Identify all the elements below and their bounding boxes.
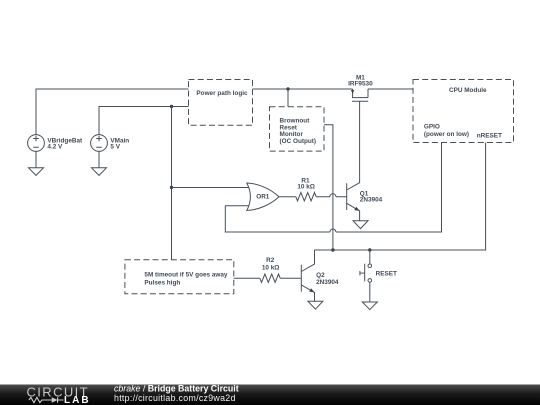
- transistor M1 IRF9530 (P-MOSFET): [351, 89, 368, 101]
- svg-text:2N3904: 2N3904: [360, 196, 383, 203]
- label R1 10 kOhm: [297, 177, 315, 190]
- transistor Q1 2N3904 (NPN): [347, 101, 360, 220]
- wire to OR1 top input: [172, 187, 252, 189]
- node junction VMain rail: [170, 105, 173, 108]
- wire hop arc on feedback line: [330, 229, 336, 232]
- switch RESET (pushbutton): [360, 250, 372, 302]
- label Q1 2N3904: [360, 190, 383, 203]
- svg-text:nRESET: nRESET: [477, 133, 502, 140]
- svg-text:R2: R2: [266, 257, 275, 264]
- svg-text:Q2: Q2: [316, 272, 325, 279]
- ground (Q1 emitter): [353, 221, 368, 229]
- label Brownout Reset Monitor (OC Output): [280, 117, 317, 145]
- wire GPIO feedback to OR1 lower input (with hop over brownout net): [225, 143, 441, 233]
- label VMain 5 V: [110, 137, 129, 150]
- svg-text:5M timeout if 5V goes away: 5M timeout if 5V goes away: [144, 272, 228, 279]
- resistor R2: [260, 274, 280, 282]
- svg-text:IRF9530: IRF9530: [348, 81, 373, 88]
- ground (Q2 emitter): [308, 301, 323, 309]
- svg-text:http://circuitlab.com/cz9wa2d: http://circuitlab.com/cz9wa2d: [114, 393, 236, 403]
- block Brownout Reset Monitor (dashed): [270, 107, 325, 151]
- logo resistor + diode: [29, 397, 64, 402]
- voltage source VMain: [91, 135, 108, 152]
- label 5M timeout if 5V goes away / Pulses high: [144, 272, 228, 287]
- svg-text:2N3904: 2N3904: [316, 279, 339, 286]
- svg-text:10 kΩ: 10 kΩ: [262, 264, 280, 271]
- block CPU Module (dashed): [413, 80, 514, 143]
- svg-text:RESET: RESET: [376, 270, 397, 277]
- wire OR1 output to R1: [279, 196, 296, 198]
- label Q2 2N3904: [316, 272, 339, 286]
- node junction brownout branch: [286, 87, 289, 90]
- svg-text:Pulses high: Pulses high: [144, 280, 180, 287]
- svg-text:Power path logic: Power path logic: [196, 90, 248, 97]
- svg-text:LAB: LAB: [64, 395, 91, 405]
- node junction OR1 top input branch: [170, 186, 173, 189]
- wire M1 drain to CPU Module: [368, 88, 413, 90]
- gate OR1: [247, 183, 279, 210]
- wire Brownout output down to reset net: [324, 125, 333, 250]
- svg-text:10 kΩ: 10 kΩ: [297, 183, 315, 190]
- resistor R1: [296, 193, 316, 201]
- svg-text:(power on low): (power on low): [424, 131, 469, 138]
- transistor Q2 2N3904 (NPN): [301, 250, 314, 301]
- wire down to Brownout box: [287, 89, 289, 107]
- wire hop arc on R1 wire: [330, 194, 336, 197]
- wire VBridgeBat to Power path logic: [36, 89, 189, 135]
- svg-text:Brownout: Brownout: [280, 117, 311, 124]
- ground (VBridgeBat): [29, 168, 44, 176]
- wire VMain to Power path logic: [99, 107, 189, 135]
- block Power path logic (dashed): [189, 80, 253, 126]
- wire VBridgeBat to ground: [35, 151, 37, 167]
- footer bar: [0, 384, 540, 405]
- node junction RESET switch: [368, 248, 371, 251]
- block 5M timeout (dashed): [125, 260, 234, 294]
- ground (RESET): [362, 302, 377, 310]
- wire reset net: nRESET pin down and across to Q2 collector: [315, 143, 486, 251]
- wire R1 to Q1 base (hop over brownout net): [316, 196, 347, 198]
- wire Power path logic output rail to M1 source: [253, 88, 353, 90]
- wire VMain to ground: [98, 151, 100, 167]
- voltage source VBridgeBat: [28, 121, 45, 151]
- wire 5M box to R2: [234, 277, 260, 279]
- label M1 IRF9530: [348, 75, 373, 88]
- label R2 10 kOhm: [262, 257, 280, 271]
- wire R2 to Q2 base: [280, 277, 301, 279]
- svg-text:cbrake / Bridge Battery Circui: cbrake / Bridge Battery Circuit: [114, 384, 239, 394]
- svg-text:CPU Module: CPU Module: [449, 87, 487, 94]
- ground (VMain): [92, 168, 107, 176]
- svg-text:(OC Output): (OC Output): [280, 138, 317, 145]
- wire vertical bus from VMain rail down to 5M timeout box: [171, 107, 173, 260]
- node junction brownout/reset net: [331, 248, 334, 251]
- label VBridgeBat 4.2 V: [47, 137, 83, 150]
- svg-text:5 V: 5 V: [110, 144, 120, 151]
- svg-text:4.2 V: 4.2 V: [47, 144, 63, 151]
- svg-text:GPIO: GPIO: [424, 123, 440, 130]
- label GPIO (power on low): [424, 123, 469, 137]
- svg-text:OR1: OR1: [256, 194, 270, 201]
